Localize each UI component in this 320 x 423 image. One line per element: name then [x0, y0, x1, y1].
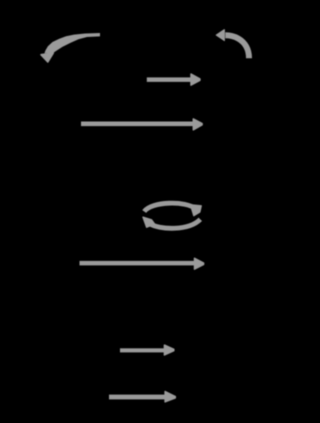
- straight arrow 3: [80, 258, 204, 269]
- cycle top arc: [144, 203, 196, 211]
- straight arrow 2: [81, 119, 202, 130]
- straight arrow 5: [109, 392, 175, 402]
- curved arrow top-right: [225, 35, 249, 58]
- cycle bottom arc: [149, 219, 201, 228]
- cycle bottom arc arrowhead: [143, 217, 155, 227]
- straight arrow 1: [147, 74, 200, 85]
- curved arrow top-right head: [216, 30, 224, 41]
- cycle top arc arrowhead: [191, 205, 202, 216]
- straight arrow 4: [120, 345, 174, 355]
- curved arrow top-left: [41, 33, 100, 62]
